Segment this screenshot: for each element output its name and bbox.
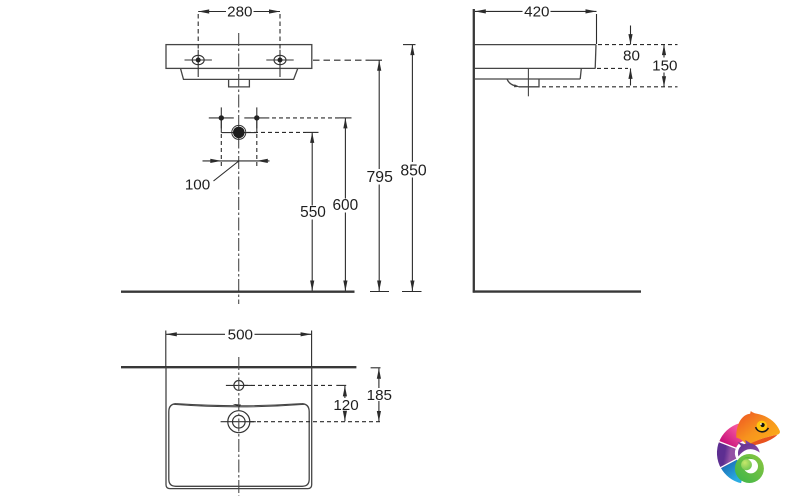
svg-text:150: 150 (652, 57, 677, 74)
svg-text:550: 550 (300, 204, 326, 221)
svg-text:120: 120 (333, 397, 358, 414)
svg-text:795: 795 (367, 169, 394, 186)
svg-text:185: 185 (367, 387, 392, 404)
svg-text:100: 100 (185, 177, 210, 194)
svg-text:600: 600 (332, 197, 358, 214)
svg-text:80: 80 (623, 48, 640, 65)
svg-text:500: 500 (228, 326, 253, 343)
svg-text:420: 420 (524, 3, 549, 20)
svg-text:280: 280 (227, 3, 252, 20)
svg-text:850: 850 (400, 162, 427, 179)
